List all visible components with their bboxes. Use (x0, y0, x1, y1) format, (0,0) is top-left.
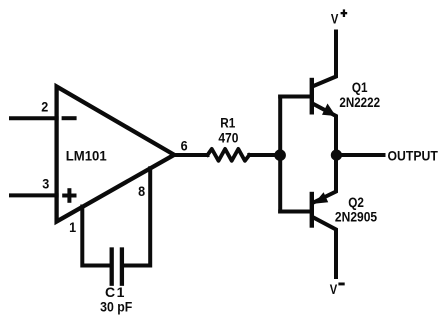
node A junction dot (R1 to bases) (274, 149, 286, 161)
wire R1 to base node (249, 153, 280, 157)
svg-text:V: V (331, 11, 339, 26)
transistor Q1 emitter arrow (322, 104, 336, 117)
svg-text:2N2905: 2N2905 (335, 209, 377, 225)
svg-text:R1: R1 (220, 115, 235, 131)
capacitor C1 right plate (120, 250, 124, 284)
svg-text:470: 470 (218, 130, 238, 146)
transistor Q1 collector lead to V+ (314, 32, 337, 87)
svg-text:8: 8 (138, 183, 145, 199)
svg-text:LM101: LM101 (66, 148, 107, 163)
svg-text:2: 2 (41, 99, 48, 115)
wire Q1 base lead (280, 95, 310, 99)
label V- superscript minus (338, 283, 344, 286)
transistor Q2 base bar (310, 194, 314, 226)
svg-text:V: V (330, 282, 338, 297)
svg-text:6: 6 (181, 138, 188, 154)
wire pin 8 to compensation cap (124, 168, 150, 265)
svg-text:30 pF: 30 pF (100, 299, 132, 315)
op-amp U1 triangle (57, 87, 175, 222)
transistor Q1 base bar (310, 80, 314, 112)
wire pin 1 to compensation cap (82, 207, 109, 266)
wire op-amp output pin 6 (174, 153, 208, 157)
wire inverting input stub pin 2 (11, 116, 57, 120)
svg-text:OUTPUT: OUTPUT (388, 148, 438, 164)
svg-text:3: 3 (42, 176, 49, 192)
plus symbol (non-inverting input) (62, 188, 76, 203)
svg-text:1: 1 (69, 219, 77, 235)
transistor Q2 emitter arrow (314, 192, 328, 204)
svg-text:2N2222: 2N2222 (339, 94, 380, 110)
transistor Q2 collector lead to V- (314, 218, 337, 278)
capacitor C1 left plate (110, 250, 114, 284)
wire Q2 base lead (280, 210, 310, 214)
wire base rail vertical (278, 97, 282, 212)
node B junction dot (emitters / output) (331, 150, 342, 161)
transistor Q1 emitter lead (314, 104, 337, 155)
wire non-inverting input stub pin 3 (11, 193, 57, 197)
svg-text:Q1: Q1 (352, 79, 368, 95)
transistor Q2 emitter lead (314, 155, 337, 203)
label V+ superscript plus (341, 12, 348, 14)
resistor R1 zigzag (208, 149, 250, 161)
minus symbol (inverting input) (62, 116, 77, 120)
wire output lead (337, 153, 384, 157)
